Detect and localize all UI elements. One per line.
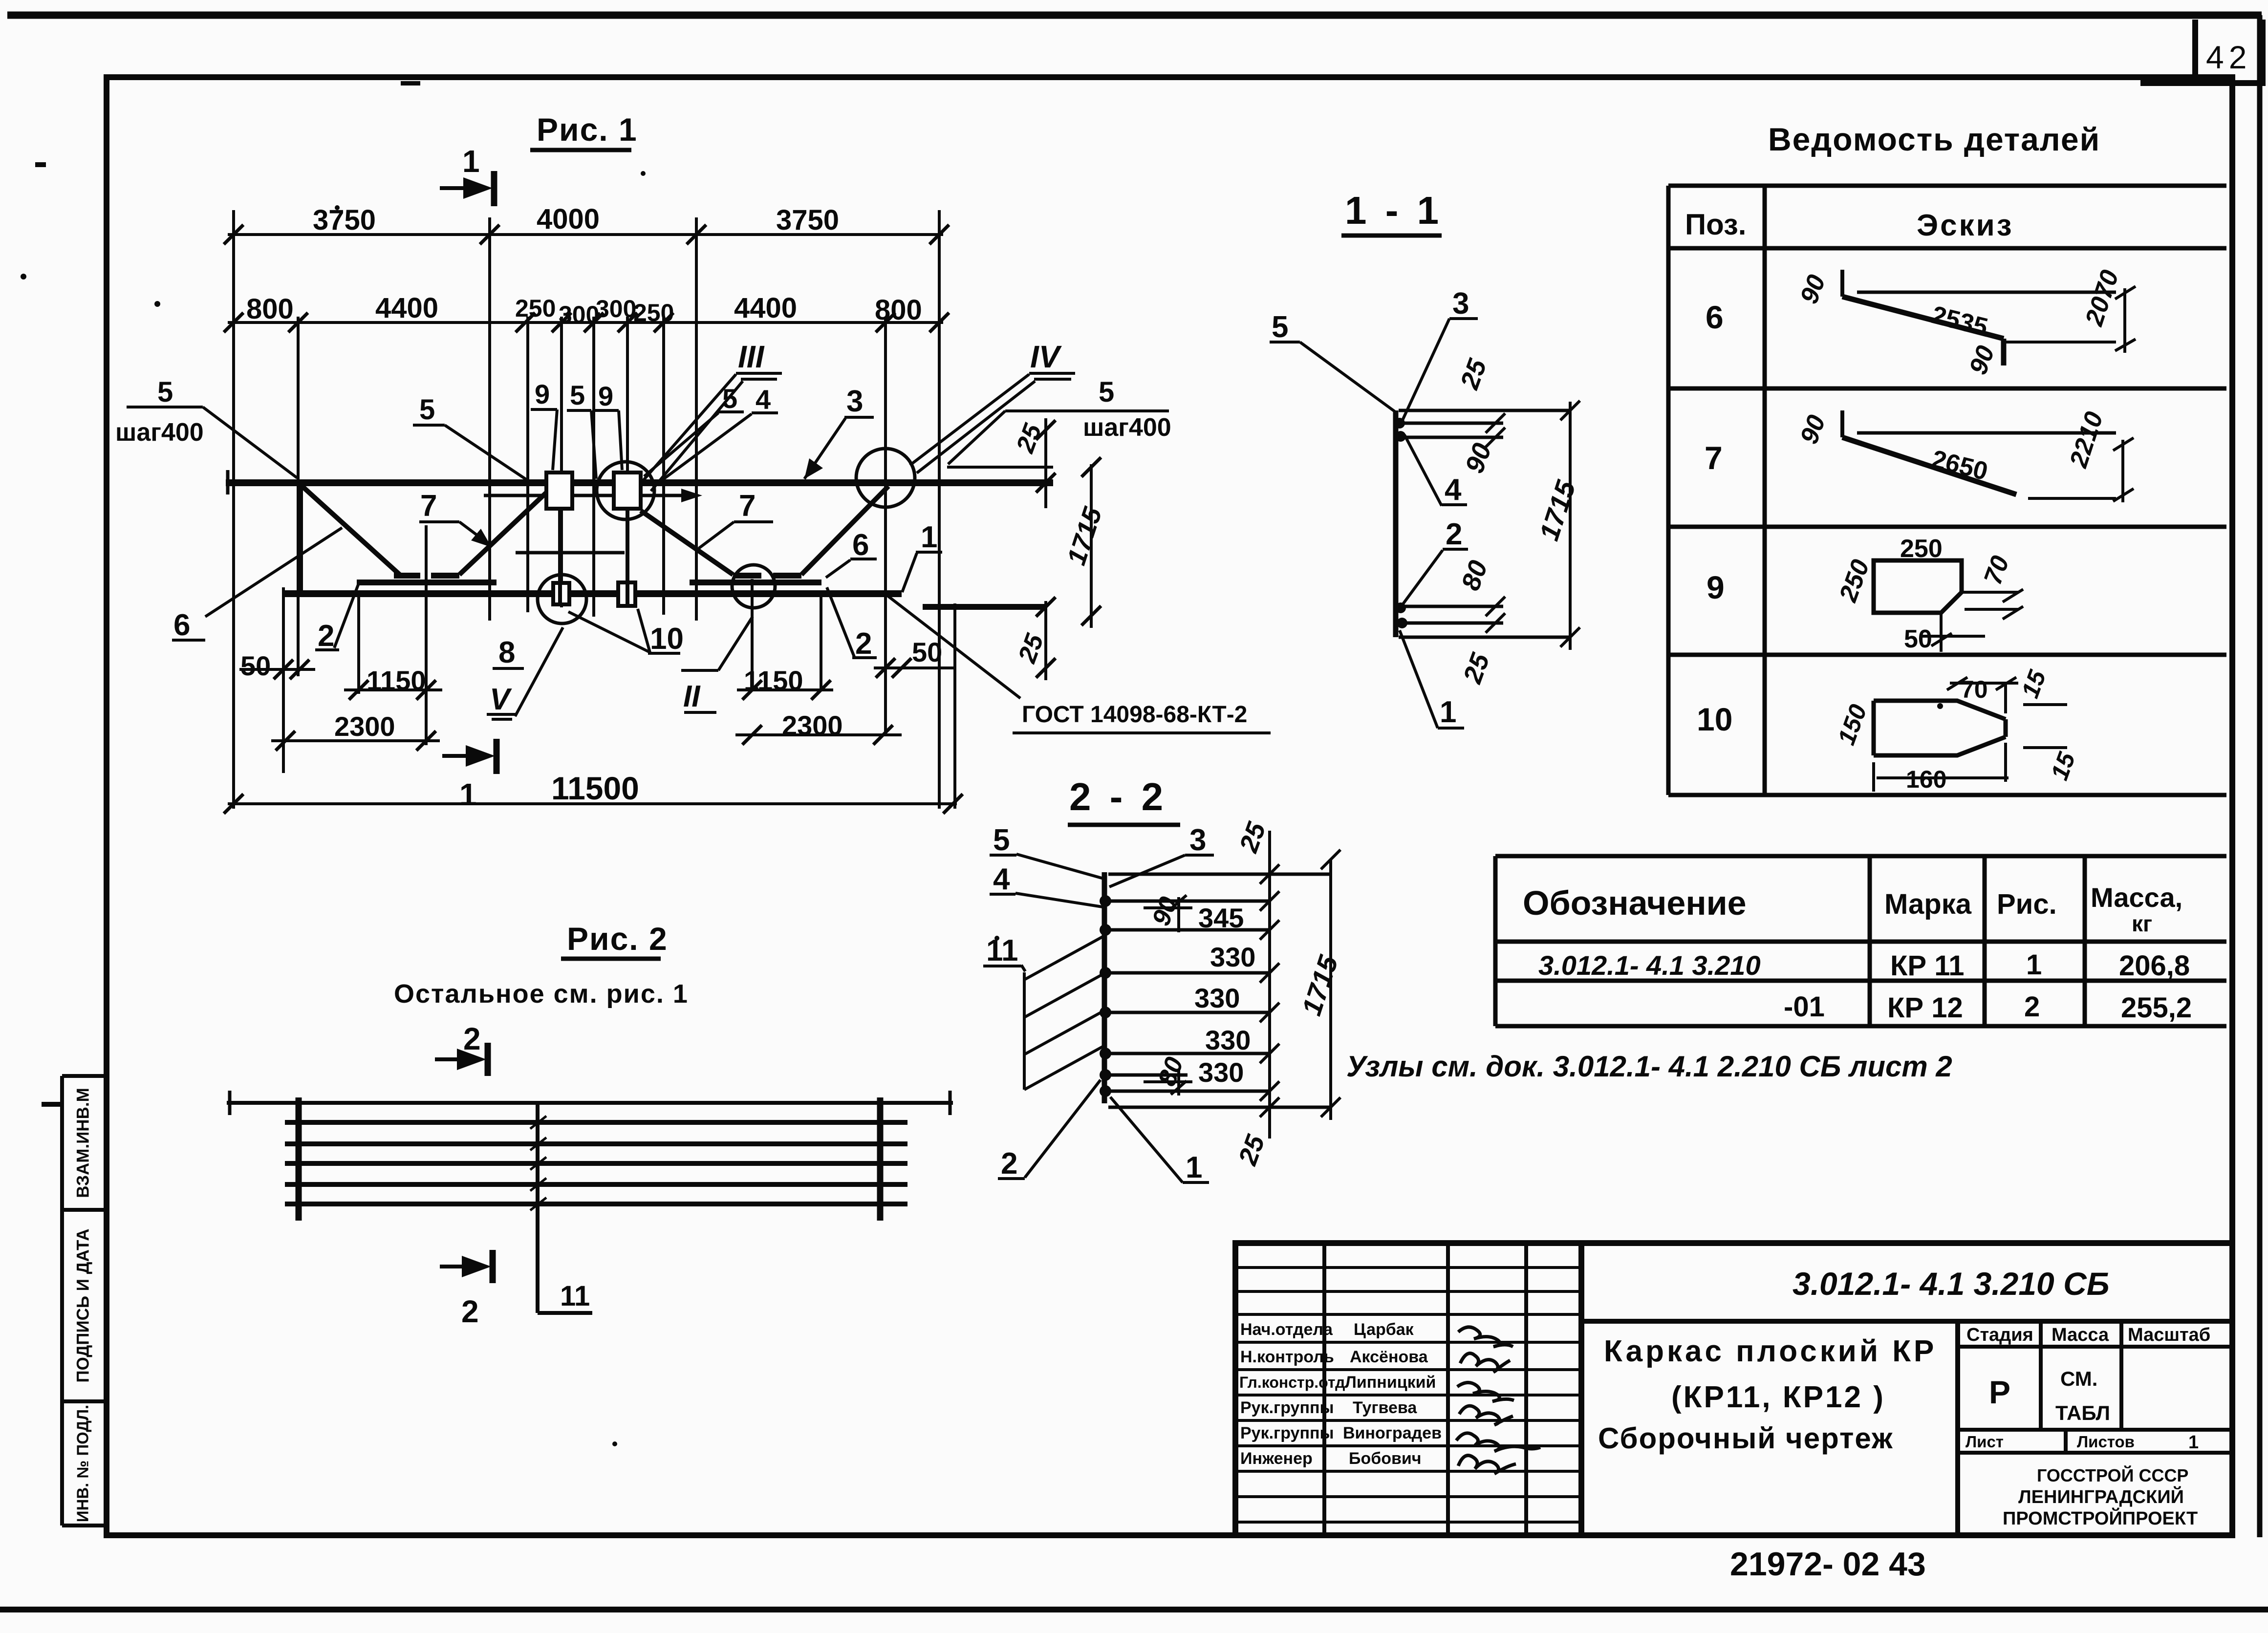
svg-text:3750: 3750: [313, 204, 376, 236]
svg-text:1: 1: [921, 520, 937, 554]
svg-text:21972- 02 43: 21972- 02 43: [1730, 1546, 1926, 1583]
svg-text:СМ.: СМ.: [2060, 1367, 2097, 1390]
svg-text:1: 1: [2188, 1432, 2199, 1453]
svg-text:Эскиз: Эскиз: [1917, 209, 2014, 242]
svg-text:2: 2: [855, 627, 872, 661]
svg-text:Рис.: Рис.: [1997, 888, 2057, 920]
svg-text:160: 160: [1906, 766, 1946, 793]
svg-text:3.012.1- 4.1 3.210: 3.012.1- 4.1 3.210: [1538, 950, 1761, 981]
svg-text:300: 300: [559, 301, 599, 328]
svg-text:250: 250: [1900, 535, 1943, 563]
svg-text:ПОДПИСЬ И ДАТА: ПОДПИСЬ И ДАТА: [73, 1228, 92, 1382]
svg-text:Обозначение: Обозначение: [1523, 884, 1747, 922]
svg-text:4400: 4400: [734, 292, 797, 324]
svg-text:1: 1: [2026, 949, 2042, 981]
svg-text:V: V: [490, 683, 512, 716]
svg-text:4: 4: [1445, 473, 1462, 507]
svg-text:Бобович: Бобович: [1349, 1449, 1422, 1468]
svg-text:345: 345: [1198, 902, 1244, 933]
svg-text:КР 12: КР 12: [1887, 992, 1963, 1024]
svg-text:Рис. 2: Рис. 2: [567, 921, 668, 957]
svg-text:Инженер: Инженер: [1240, 1449, 1313, 1468]
svg-text:330: 330: [1198, 1057, 1244, 1088]
svg-text:2300: 2300: [334, 711, 395, 742]
svg-text:Рис. 1: Рис. 1: [537, 111, 638, 148]
svg-text:ИНВ. № ПОДЛ.: ИНВ. № ПОДЛ.: [74, 1405, 92, 1522]
svg-text:6: 6: [852, 528, 869, 562]
svg-text:Нач.отдела: Нач.отдела: [1240, 1320, 1333, 1339]
svg-text:5: 5: [1099, 376, 1114, 408]
svg-text:2: 2: [463, 1021, 481, 1056]
svg-text:4400: 4400: [375, 292, 438, 324]
svg-text:Поз.: Поз.: [1685, 208, 1746, 241]
svg-text:Аксёнова: Аксёнова: [1350, 1348, 1428, 1366]
svg-text:8: 8: [498, 636, 515, 669]
svg-text:3: 3: [1452, 287, 1469, 321]
svg-text:330: 330: [1210, 942, 1255, 972]
svg-text:1: 1: [459, 777, 477, 812]
svg-text:2300: 2300: [782, 710, 843, 741]
svg-text:7: 7: [420, 489, 437, 523]
svg-text:шаг400: шаг400: [1083, 413, 1171, 442]
svg-text:1: 1: [462, 144, 480, 179]
svg-text:ГОСТ 14098-68-КТ-2: ГОСТ 14098-68-КТ-2: [1022, 702, 1247, 728]
svg-text:4: 4: [993, 862, 1010, 896]
svg-text:-01: -01: [1784, 991, 1825, 1023]
svg-text:кг: кг: [2132, 911, 2152, 936]
svg-text:Виноградев: Виноградев: [1343, 1424, 1442, 1442]
svg-text:II: II: [683, 680, 701, 713]
svg-text:ВЗАМ.ИНВ.М: ВЗАМ.ИНВ.М: [73, 1088, 92, 1198]
svg-text:3: 3: [1189, 823, 1206, 857]
svg-text:330: 330: [1194, 983, 1240, 1013]
svg-text:Ведомость деталей: Ведомость деталей: [1768, 121, 2100, 157]
svg-text:Гл.констр.отд: Гл.констр.отд: [1239, 1374, 1345, 1391]
svg-text:50: 50: [912, 637, 942, 667]
svg-text:255,2: 255,2: [2121, 992, 2192, 1024]
svg-text:2: 2: [2024, 991, 2040, 1023]
svg-text:III: III: [738, 339, 765, 374]
svg-text:330: 330: [1205, 1025, 1251, 1055]
svg-text:2: 2: [461, 1294, 479, 1329]
svg-text:50: 50: [240, 650, 271, 681]
svg-text:3.012.1- 4.1 3.210 СБ: 3.012.1- 4.1 3.210 СБ: [1793, 1266, 2110, 1302]
svg-text:Каркас плоский КР: Каркас плоский КР: [1604, 1334, 1937, 1368]
svg-text:4000: 4000: [537, 203, 600, 235]
svg-text:Н.контроль: Н.контроль: [1240, 1348, 1334, 1366]
svg-text:1150: 1150: [744, 665, 803, 696]
svg-text:1: 1: [1186, 1151, 1202, 1184]
svg-text:11: 11: [986, 934, 1018, 967]
svg-text:5: 5: [993, 823, 1010, 857]
svg-text:9: 9: [598, 381, 613, 411]
svg-text:Листов: Листов: [2077, 1433, 2135, 1451]
svg-text:3750: 3750: [776, 204, 839, 236]
svg-text:Сборочный чертеж: Сборочный чертеж: [1598, 1422, 1894, 1455]
svg-text:4: 4: [756, 384, 771, 415]
svg-text:5: 5: [1272, 310, 1288, 344]
svg-text:2: 2: [1001, 1147, 1017, 1181]
svg-text:1: 1: [1440, 695, 1456, 729]
svg-text:5: 5: [157, 376, 173, 408]
svg-text:6: 6: [173, 608, 190, 642]
svg-text:Липницкий: Липницкий: [1345, 1373, 1436, 1392]
svg-text:Узлы см. док. 3.012.1- 4.1: Узлы см. док. 3.012.1- 4.1 2.210 СБ лист…: [1346, 1050, 1952, 1083]
svg-text:Масса,: Масса,: [2091, 882, 2182, 913]
svg-text:250: 250: [633, 299, 674, 326]
svg-text:Марка: Марка: [1884, 888, 1972, 920]
svg-text:Масса: Масса: [2052, 1325, 2109, 1345]
svg-text:50: 50: [1904, 625, 1932, 653]
svg-text:9: 9: [1706, 569, 1725, 605]
svg-text:КР 11: КР 11: [1890, 950, 1965, 982]
svg-text:6: 6: [1706, 299, 1724, 335]
svg-text:11500: 11500: [551, 770, 639, 806]
svg-text:9: 9: [535, 379, 550, 409]
svg-text:Масштаб: Масштаб: [2128, 1325, 2210, 1345]
svg-text:800: 800: [246, 293, 294, 325]
svg-text:ГОССТРОЙ СССР: ГОССТРОЙ СССР: [2037, 1465, 2188, 1485]
svg-text:(КР11, КР12 ): (КР11, КР12 ): [1671, 1380, 1885, 1414]
svg-text:300: 300: [596, 295, 636, 322]
svg-text:250: 250: [515, 295, 556, 322]
svg-text:11: 11: [560, 1280, 590, 1312]
svg-text:Стадия: Стадия: [1966, 1325, 2033, 1345]
svg-text:5: 5: [570, 380, 585, 410]
svg-text:10: 10: [650, 622, 684, 656]
svg-text:ТАБЛ: ТАБЛ: [2055, 1401, 2110, 1424]
svg-text:1150: 1150: [367, 665, 426, 696]
svg-text:5: 5: [419, 394, 435, 426]
svg-text:70: 70: [1961, 676, 1988, 703]
svg-text:7: 7: [739, 489, 756, 523]
svg-text:Лист: Лист: [1966, 1433, 2004, 1451]
svg-text:2: 2: [318, 619, 334, 653]
svg-text:800: 800: [875, 294, 922, 326]
svg-text:ПРОМСТРОЙПРОЕКТ: ПРОМСТРОЙПРОЕКТ: [2003, 1507, 2198, 1529]
svg-text:2: 2: [1446, 517, 1462, 551]
svg-text:Тугвева: Тугвева: [1353, 1398, 1417, 1417]
svg-text:шаг400: шаг400: [115, 418, 204, 447]
svg-text:Р: Р: [1989, 1374, 2010, 1410]
svg-text:Рук.группы: Рук.группы: [1240, 1424, 1334, 1442]
svg-text:Остальное см. рис. 1: Остальное см. рис. 1: [394, 979, 689, 1009]
svg-text:1 - 1: 1 - 1: [1345, 189, 1443, 232]
svg-text:206,8: 206,8: [2119, 950, 2190, 982]
svg-text:10: 10: [1697, 701, 1732, 737]
svg-text:Царбак: Царбак: [1354, 1320, 1414, 1339]
svg-text:3: 3: [846, 385, 863, 418]
svg-text:5: 5: [722, 383, 737, 414]
svg-text:7: 7: [1705, 440, 1723, 476]
svg-text:ЛЕНИНГРАДСКИЙ: ЛЕНИНГРАДСКИЙ: [2018, 1485, 2184, 1507]
svg-text:Рук.группы: Рук.группы: [1240, 1398, 1334, 1417]
svg-text:2 - 2: 2 - 2: [1069, 775, 1167, 818]
svg-text:42: 42: [2206, 39, 2251, 75]
svg-text:IV: IV: [1030, 339, 1062, 374]
